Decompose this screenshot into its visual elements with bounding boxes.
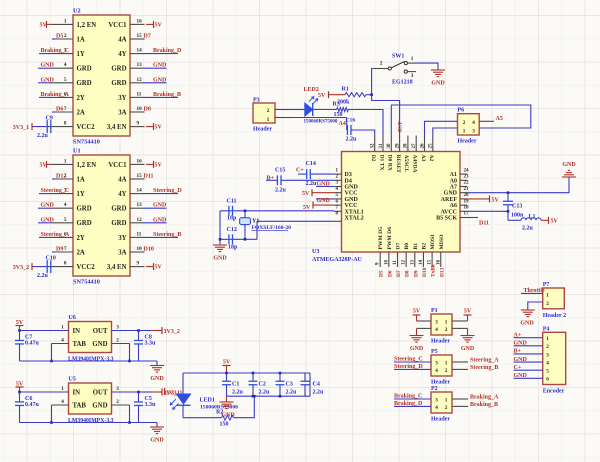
wire P3 pin2 to LED2: [291, 109, 305, 111]
svg-text:5V: 5V: [155, 22, 163, 28]
svg-text:B0: B0: [404, 243, 410, 250]
svg-text:4A: 4A: [118, 176, 126, 183]
svg-text:Steering_B: Steering_B: [153, 232, 181, 238]
svg-text:GND: GND: [345, 185, 359, 191]
svg-text:5V: 5V: [155, 125, 163, 131]
svg-text:EG1218: EG1218: [392, 80, 413, 86]
svg-text:GND: GND: [153, 77, 167, 83]
svg-text:TAB: TAB: [73, 403, 87, 410]
svg-text:4: 4: [64, 62, 67, 68]
svg-text:2.2u: 2.2u: [522, 226, 534, 232]
capacitor C3 2.2u: [279, 372, 282, 375]
svg-text:ATMEGA328P-AU: ATMEGA328P-AU: [312, 257, 363, 263]
svg-text:P2: P2: [431, 386, 438, 392]
svg-text:13: 13: [137, 202, 143, 208]
net label GND at U1 pin 4: [38, 207, 52, 209]
net Braking_A at P2 pin1: [452, 398, 468, 400]
svg-text:11: 11: [137, 91, 142, 97]
wire 5V to U5 IN: [20, 391, 69, 393]
svg-text:17: 17: [464, 212, 470, 217]
svg-text:3.3u: 3.3u: [145, 402, 157, 408]
ground at P7 pin2: [528, 302, 543, 310]
wire U6 GND to rail: [112, 343, 130, 345]
svg-text:GND: GND: [514, 357, 528, 363]
svg-text:GND: GND: [562, 162, 576, 168]
svg-text:3A: 3A: [118, 249, 126, 256]
svg-text:U2: U2: [73, 8, 81, 15]
svg-text:VCC: VCC: [345, 191, 358, 197]
power port 5V at P1 pin1: [452, 320, 468, 322]
svg-text:2: 2: [445, 368, 448, 374]
svg-text:11: 11: [393, 260, 398, 265]
svg-text:30: 30: [387, 143, 392, 149]
svg-text:13: 13: [137, 62, 143, 68]
svg-text:3: 3: [411, 73, 414, 79]
net Steering_A at P5 pin1: [452, 361, 468, 363]
svg-text:Braking_C: Braking_C: [41, 48, 69, 54]
svg-text:LM3940IMPX-3.3: LM3940IMPX-3.3: [68, 357, 114, 363]
bottom rail of U6: [20, 360, 139, 362]
svg-text:5V: 5V: [492, 197, 500, 203]
svg-text:1: 1: [61, 325, 64, 331]
svg-text:Braking_C: Braking_C: [394, 394, 422, 400]
wire C16 to U3 D2 pin: [351, 130, 375, 136]
svg-text:RST: RST: [398, 121, 404, 132]
wire left leg of crystal caps: [219, 211, 221, 240]
ground at U5: [139, 422, 158, 424]
svg-text:PWM D6: PWM D6: [387, 227, 393, 250]
svg-text:5: 5: [546, 369, 549, 375]
svg-text:5V: 5V: [155, 162, 163, 168]
svg-text:C+: C+: [296, 168, 304, 174]
svg-text:6: 6: [546, 377, 549, 383]
svg-text:GND: GND: [92, 341, 107, 348]
svg-text:2Y: 2Y: [77, 235, 85, 242]
svg-text:TxBk: TxBk: [431, 264, 437, 277]
net label Steering_C at U1 pin 3: [39, 193, 52, 195]
svg-text:5: 5: [64, 77, 67, 83]
svg-text:SN754410: SN754410: [73, 279, 100, 286]
svg-text:D5: D5: [379, 270, 385, 277]
svg-text:D13: D13: [439, 267, 445, 277]
net label GND at U2 pin 4: [38, 67, 52, 69]
svg-text:GRD: GRD: [77, 80, 92, 87]
svg-text:A2: A2: [428, 155, 434, 162]
svg-text:R3: R3: [333, 102, 340, 108]
ground at P1 pin4: [417, 327, 432, 329]
net label D5 at U2 pin 2: [52, 38, 55, 40]
net Steering_C to P5 pin3: [394, 361, 431, 363]
svg-text:Braking_B: Braking_B: [470, 402, 498, 408]
ground at U6: [139, 360, 158, 362]
svg-text:3V3_1: 3V3_1: [13, 125, 29, 131]
net label Steering_A at U1 pin 6: [39, 236, 52, 238]
svg-text:32: 32: [371, 143, 376, 149]
svg-text:GRD: GRD: [77, 66, 92, 73]
svg-text:2A: 2A: [77, 249, 85, 256]
svg-text:D0 RX: D0 RX: [387, 155, 393, 171]
svg-text:5V: 5V: [223, 360, 231, 366]
svg-text:3Y: 3Y: [118, 95, 126, 102]
wire 5V to U6 IN: [20, 330, 69, 332]
svg-text:10: 10: [137, 106, 143, 112]
svg-text:24: 24: [464, 168, 470, 173]
net Braking_B at P2 pin2: [452, 405, 468, 407]
net label Braking_B at U2 pin 11: [144, 96, 178, 98]
svg-text:2: 2: [116, 399, 119, 405]
svg-text:VCC: VCC: [345, 203, 358, 209]
svg-text:P1: P1: [431, 308, 438, 314]
svg-text:Braking_A: Braking_A: [470, 395, 499, 401]
net label Steering_B at U1 pin 11: [144, 236, 178, 238]
svg-text:3: 3: [435, 397, 438, 403]
net label D9 at U1 pin 7: [52, 251, 55, 253]
svg-text:2.2u: 2.2u: [259, 390, 271, 396]
svg-text:U1: U1: [73, 148, 81, 155]
net label GND at U2 pin 13: [144, 67, 167, 69]
power port 5V at U1 pin 9: [146, 266, 154, 268]
svg-text:C13: C13: [512, 204, 522, 210]
svg-text:GRD: GRD: [77, 206, 92, 213]
svg-text:2: 2: [267, 108, 270, 114]
svg-text:C+: C+: [514, 365, 522, 371]
svg-text:3.3u: 3.3u: [145, 341, 157, 347]
power port 3V3_2 with capacitor C10 at U1 pin 8: [32, 266, 52, 268]
svg-text:7: 7: [64, 246, 67, 252]
svg-text:1,2 EN: 1,2 EN: [77, 162, 97, 169]
svg-text:GND: GND: [153, 63, 167, 69]
svg-text:2: 2: [546, 301, 549, 307]
svg-text:5V: 5V: [551, 219, 559, 225]
net label GND at U2 pin 12: [144, 82, 167, 84]
wire SW1 pin1 to ground: [416, 63, 438, 70]
svg-text:GND: GND: [345, 197, 359, 203]
net Steering_B at P5 pin2: [452, 368, 468, 370]
wire LED1 cathode: [182, 405, 184, 417]
IC U2 SN754410: [73, 15, 130, 136]
svg-text:GND: GND: [317, 182, 331, 188]
svg-text:C15: C15: [275, 168, 285, 174]
svg-text:Steering_C: Steering_C: [394, 357, 423, 363]
svg-text:D8: D8: [144, 107, 151, 113]
net label GND at U2 pin 5: [38, 82, 52, 84]
svg-text:2: 2: [64, 33, 67, 39]
svg-text:1: 1: [445, 397, 448, 403]
svg-text:LM3940IMPX-3.3: LM3940IMPX-3.3: [68, 418, 114, 424]
svg-text:TAB: TAB: [73, 341, 87, 348]
svg-text:22: 22: [464, 181, 470, 186]
svg-text:2: 2: [463, 120, 466, 126]
svg-text:25: 25: [429, 143, 434, 149]
power port 5V at U3 AREF pin20: [467, 198, 490, 200]
svg-text:3A: 3A: [118, 109, 126, 116]
svg-text:A3: A3: [420, 155, 426, 162]
svg-text:3: 3: [472, 128, 475, 134]
svg-text:GRD: GRD: [111, 220, 126, 227]
svg-text:D11: D11: [144, 174, 154, 180]
power port 3V3_1 at LED1: [164, 388, 166, 395]
svg-text:20: 20: [464, 193, 470, 198]
wire junction to U3 RESET pin: [372, 95, 400, 136]
svg-text:13: 13: [410, 260, 415, 266]
svg-text:Braking_D: Braking_D: [394, 401, 423, 407]
net Braking_D to P2 pin4: [394, 405, 431, 407]
power port 5V at U2 pin 9: [146, 126, 154, 128]
svg-text:3V3_2: 3V3_2: [13, 265, 29, 271]
net B+ to P4 pin 3: [514, 353, 543, 355]
svg-text:GND: GND: [41, 217, 55, 223]
svg-text:18p: 18p: [227, 216, 237, 222]
inductor L1 2.2u: [507, 211, 509, 220]
svg-text:U3: U3: [312, 249, 319, 255]
svg-text:5V: 5V: [413, 309, 421, 315]
svg-text:C2: C2: [259, 382, 266, 388]
net Throttle to P7 pin1: [521, 292, 543, 294]
svg-text:2.2u: 2.2u: [232, 390, 244, 396]
svg-text:A5: A5: [496, 116, 503, 122]
net C+ to P4 pin 5: [514, 369, 543, 371]
svg-text:1: 1: [546, 336, 549, 342]
svg-text:2.2u: 2.2u: [275, 188, 287, 194]
svg-text:VCC2: VCC2: [77, 124, 96, 131]
net GND to P4 pin 4: [514, 361, 543, 363]
svg-text:1A: 1A: [77, 176, 85, 183]
svg-text:5V: 5V: [464, 309, 472, 315]
svg-text:4: 4: [435, 405, 438, 411]
power port 5V at U3 pin6: [313, 204, 334, 206]
svg-text:SN754410: SN754410: [73, 139, 100, 146]
svg-text:2: 2: [445, 327, 448, 333]
svg-text:27: 27: [412, 143, 417, 149]
svg-text:GRD: GRD: [111, 66, 126, 73]
svg-text:LED2: LED2: [304, 87, 319, 93]
wire U5 TAB to rail: [52, 404, 69, 406]
svg-text:XTAL2: XTAL2: [345, 216, 364, 222]
svg-text:B5 SCK: B5 SCK: [436, 216, 457, 222]
wire XTAL2: [257, 220, 334, 222]
svg-text:D6: D6: [387, 270, 393, 277]
svg-text:1: 1: [64, 18, 67, 24]
svg-text:Steering_A: Steering_A: [41, 232, 70, 238]
svg-text:28: 28: [404, 143, 409, 149]
svg-text:P5: P5: [431, 349, 438, 355]
svg-text:D7: D7: [144, 34, 151, 40]
power port 3V3_1 at U5 output: [139, 391, 152, 393]
svg-text:Header: Header: [431, 417, 450, 423]
svg-text:1Y: 1Y: [77, 51, 85, 58]
svg-text:C4: C4: [313, 382, 320, 388]
wire crystal bottom rail: [220, 238, 257, 240]
svg-text:R1: R1: [342, 87, 349, 93]
svg-text:15: 15: [137, 33, 143, 39]
svg-text:21: 21: [464, 187, 470, 192]
svg-text:1Y: 1Y: [77, 191, 85, 198]
svg-text:4: 4: [64, 202, 67, 208]
svg-text:4A: 4A: [118, 36, 126, 43]
svg-text:0.47u: 0.47u: [25, 341, 40, 347]
svg-text:8: 8: [64, 121, 67, 127]
bottom rail of U5: [20, 422, 139, 424]
svg-text:D12: D12: [56, 174, 66, 180]
net A+ to P4 pin 1: [514, 337, 543, 339]
svg-text:AVCC: AVCC: [440, 209, 457, 215]
svg-text:4Y: 4Y: [118, 51, 126, 58]
net label GND at U1 pin 12: [144, 222, 167, 224]
svg-text:2: 2: [445, 405, 448, 411]
ground at P1 pin2: [452, 327, 468, 329]
net label Braking_A at U2 pin 6: [39, 96, 52, 98]
ground symbol top right: [562, 176, 576, 178]
svg-text:2: 2: [380, 61, 383, 67]
svg-text:4Y: 4Y: [118, 191, 126, 198]
svg-text:A5SCL: A5SCL: [403, 155, 409, 173]
svg-text:Braking_A: Braking_A: [41, 92, 70, 98]
svg-text:A+: A+: [514, 333, 522, 339]
net label GND at U1 pin 5: [38, 222, 52, 224]
wire U3 GND pin21 to ground: [467, 177, 569, 193]
svg-text:18: 18: [464, 206, 470, 211]
svg-text:4: 4: [472, 120, 475, 126]
power port 5V at U2 pin 16: [146, 23, 154, 25]
svg-text:5V: 5V: [40, 162, 48, 168]
node R1/SW1/RESET junction: [370, 93, 373, 96]
svg-text:2.2u: 2.2u: [37, 273, 49, 279]
svg-text:MISO: MISO: [439, 234, 445, 250]
capacitor C8 3.3u: [138, 331, 140, 341]
svg-text:C1: C1: [232, 382, 239, 388]
svg-text:B1: B1: [413, 243, 419, 250]
svg-text:A4SDA: A4SDA: [412, 155, 418, 173]
svg-text:D8: D8: [405, 270, 411, 277]
svg-text:GND: GND: [213, 256, 227, 262]
regulator U6 LM3940IMPX-3.3: [69, 322, 112, 353]
svg-text:11: 11: [137, 231, 142, 237]
power port 5V at U1 pin 1: [46, 163, 52, 165]
svg-text:P6: P6: [458, 108, 465, 114]
svg-text:D5: D5: [56, 34, 63, 40]
svg-text:C9: C9: [46, 115, 53, 121]
capacitor C13 100n: [507, 191, 510, 194]
svg-text:4: 4: [61, 399, 64, 405]
svg-text:GND: GND: [150, 376, 164, 382]
wire caps bottom rail: [227, 395, 311, 397]
svg-text:5V: 5V: [303, 205, 311, 211]
wire U3 D0 RX to P6 pin3 loop: [391, 105, 531, 136]
svg-text:GND: GND: [317, 198, 331, 204]
svg-text:0.47u: 0.47u: [25, 402, 40, 408]
capacitor C14 2.2u and net C+ to U3 pin1: [298, 173, 307, 175]
power port 5V at P1 pin3: [417, 320, 432, 322]
svg-text:OUT: OUT: [93, 390, 108, 397]
svg-text:2Y: 2Y: [77, 95, 85, 102]
ground at bypass caps: [226, 396, 228, 402]
svg-text:AREF: AREF: [441, 197, 458, 203]
net label GND at U3 pin5: [316, 198, 334, 200]
svg-text:GRD: GRD: [111, 80, 126, 87]
svg-text:GND: GND: [41, 77, 55, 83]
svg-text:12: 12: [137, 77, 143, 83]
svg-text:16: 16: [137, 18, 143, 24]
svg-text:GND: GND: [514, 373, 528, 379]
svg-text:10: 10: [384, 260, 389, 266]
svg-text:U6: U6: [69, 315, 76, 321]
svg-text:C14: C14: [306, 161, 316, 167]
capacitor C15 2.2u and net B+ to U3 pin2: [266, 179, 277, 181]
svg-text:5V: 5V: [318, 93, 326, 99]
ground at crystal: [219, 239, 221, 245]
svg-text:D1 TX: D1 TX: [378, 155, 384, 171]
svg-text:Steering_A: Steering_A: [470, 358, 499, 364]
wire U3 A3 to P6: [425, 121, 458, 135]
svg-text:10: 10: [137, 246, 143, 252]
svg-text:D7: D7: [396, 270, 402, 277]
svg-text:Throttle: Throttle: [524, 288, 546, 294]
svg-text:4: 4: [546, 360, 549, 366]
svg-text:1: 1: [445, 360, 448, 366]
svg-text:MOSI: MOSI: [430, 235, 436, 250]
svg-text:1: 1: [463, 128, 466, 134]
capacitor C7 0.47u: [19, 331, 21, 341]
net label Steering_D at U1 pin 14: [144, 193, 178, 195]
svg-text:1: 1: [546, 292, 549, 298]
svg-text:Header: Header: [431, 380, 450, 386]
svg-text:GND: GND: [92, 403, 107, 410]
wire SW1 pin2 to R1 node: [372, 69, 374, 95]
wire U6 OUT: [112, 330, 139, 332]
svg-text:8: 8: [64, 261, 67, 267]
power port 5V at U3 pin4: [312, 192, 334, 194]
net label GND at U3 pin3: [316, 186, 334, 188]
capacitor C4 2.2u: [309, 373, 311, 396]
svg-text:23: 23: [464, 175, 470, 180]
capacitor C1 2.2u: [225, 372, 228, 375]
svg-text:B2: B2: [421, 243, 427, 250]
svg-text:A1: A1: [450, 172, 457, 178]
svg-text:C11: C11: [227, 199, 237, 205]
wire 5V top rail: [183, 372, 310, 374]
svg-text:PWM D5: PWM D5: [378, 227, 384, 250]
net label Braking_D at U2 pin 14: [144, 53, 178, 55]
svg-text:VCC1: VCC1: [108, 162, 127, 169]
svg-text:GND: GND: [444, 191, 458, 197]
svg-text:1,2 EN: 1,2 EN: [77, 22, 97, 29]
svg-text:D9: D9: [413, 270, 419, 277]
svg-text:C10: C10: [46, 255, 56, 261]
net label D12 at U1 pin 2: [52, 178, 55, 180]
wire R3 to U3 D1 TX pin: [348, 110, 383, 136]
svg-text:Steering_D: Steering_D: [394, 364, 423, 370]
wire U5 OUT: [112, 391, 139, 393]
svg-text:19: 19: [464, 199, 470, 204]
svg-text:2: 2: [116, 338, 119, 344]
svg-text:SW1: SW1: [392, 54, 404, 60]
svg-text:D10: D10: [422, 267, 428, 277]
regulator U5 LM3940IMPX-3.3: [69, 383, 112, 414]
svg-text:2.2u: 2.2u: [313, 390, 325, 396]
svg-text:14: 14: [419, 260, 424, 266]
svg-text:14: 14: [137, 48, 143, 54]
svg-text:2.2u: 2.2u: [37, 133, 49, 139]
svg-text:D10: D10: [144, 247, 154, 253]
svg-text:3: 3: [435, 319, 438, 325]
svg-text:Header 2: Header 2: [543, 313, 566, 319]
svg-text:Braking_D: Braking_D: [153, 48, 182, 54]
svg-text:3V3_2: 3V3_2: [164, 329, 180, 335]
IC U3 ATMEGA328P-AU: [342, 152, 461, 253]
svg-text:1: 1: [445, 319, 448, 325]
svg-text:12: 12: [137, 217, 143, 223]
svg-text:2A: 2A: [77, 109, 85, 116]
